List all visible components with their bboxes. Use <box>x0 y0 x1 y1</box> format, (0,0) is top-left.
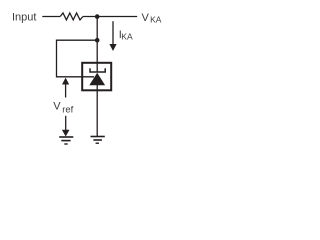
wire: cathode vertical <box>96 17 98 63</box>
resistor R1 <box>60 13 83 20</box>
svg-text:V: V <box>142 12 150 24</box>
svg-text:KA: KA <box>121 32 133 42</box>
voltage arrow Vref down <box>65 116 67 131</box>
wire: resistor to VKA <box>83 16 137 18</box>
svg-text:ref: ref <box>62 104 73 115</box>
current arrow IKA <box>112 21 114 45</box>
svg-text:Input: Input <box>12 11 36 23</box>
wire: Input to resistor <box>42 16 60 18</box>
wire: anode to ground <box>96 85 98 136</box>
ground (anode) <box>91 136 105 138</box>
voltage arrow Vref up <box>65 84 67 98</box>
wire: feedback branch to REF <box>57 40 98 77</box>
svg-text:KA: KA <box>150 15 162 25</box>
ground (Vref reference) <box>59 136 73 138</box>
U1 internal cathode wire <box>96 62 98 72</box>
shunt regulator U1 body <box>82 63 111 91</box>
node: cathode junction <box>95 14 100 19</box>
U1 cathode bar with hooks <box>90 68 105 72</box>
U1 anode triangle <box>89 73 105 85</box>
svg-text:V: V <box>53 101 61 113</box>
node: feedback junction <box>95 38 100 43</box>
